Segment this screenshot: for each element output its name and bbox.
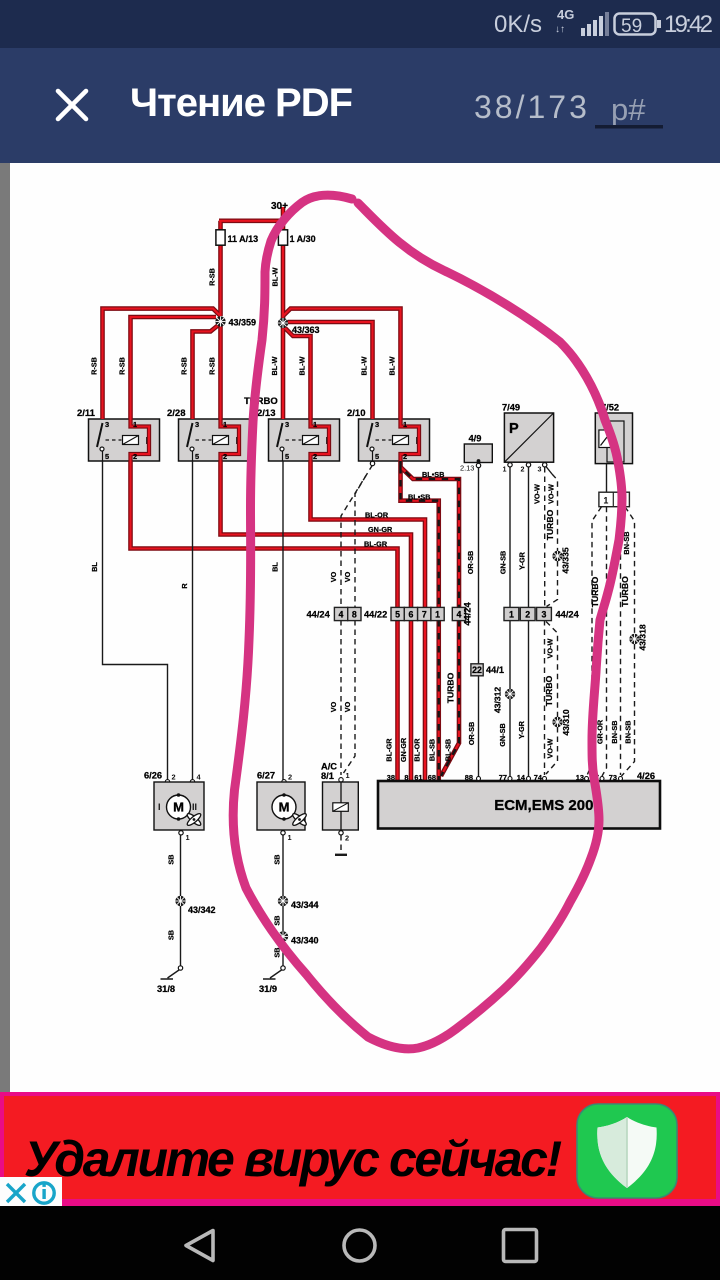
- svg-text:GN-SB: GN-SB: [498, 723, 507, 747]
- svg-text:2: 2: [172, 773, 176, 782]
- svg-text:3: 3: [285, 420, 289, 429]
- svg-text:BL-OR: BL-OR: [365, 511, 389, 520]
- svg-text:31/9: 31/9: [259, 984, 277, 994]
- svg-text:VO-W: VO-W: [533, 484, 542, 504]
- svg-text:VO-W: VO-W: [546, 738, 555, 758]
- svg-text:TURBO: TURBO: [590, 576, 600, 607]
- svg-text:19:42: 19:42: [664, 11, 713, 38]
- svg-text:GN-SB: GN-SB: [499, 551, 508, 575]
- svg-text:3: 3: [375, 420, 379, 429]
- svg-text:VO: VO: [329, 571, 338, 582]
- svg-text:73: 73: [609, 773, 617, 782]
- svg-text:TURBO: TURBO: [620, 576, 630, 607]
- svg-text:43/340: 43/340: [291, 936, 319, 946]
- svg-text:BL-GR: BL-GR: [364, 540, 388, 549]
- svg-text:30+: 30+: [271, 201, 288, 212]
- svg-text:22: 22: [472, 665, 482, 675]
- svg-text:TURBO: TURBO: [446, 672, 456, 703]
- svg-text:VO: VO: [343, 701, 352, 712]
- svg-text:A/C: A/C: [321, 762, 337, 772]
- svg-text:2/28: 2/28: [167, 408, 186, 419]
- svg-text:BL-W: BL-W: [271, 267, 280, 286]
- svg-text:SB: SB: [273, 854, 282, 864]
- svg-text:1: 1: [435, 610, 440, 620]
- svg-text:SB: SB: [167, 854, 176, 864]
- svg-text:SB: SB: [273, 915, 282, 925]
- svg-text:1: 1: [133, 420, 137, 429]
- svg-text:GN-GR: GN-GR: [368, 525, 393, 534]
- svg-text:74: 74: [534, 773, 543, 782]
- svg-text:Y-GR: Y-GR: [517, 720, 526, 739]
- svg-text:Y-GR: Y-GR: [518, 551, 527, 570]
- svg-text:TURBO: TURBO: [244, 396, 278, 407]
- svg-text:1: 1: [313, 420, 317, 429]
- svg-text:8/1: 8/1: [321, 771, 334, 781]
- svg-text:38: 38: [387, 773, 395, 782]
- svg-text:61: 61: [414, 773, 422, 782]
- svg-text:1: 1: [288, 833, 292, 842]
- svg-text:VO: VO: [329, 701, 338, 712]
- svg-text:BL-OR: BL-OR: [413, 738, 422, 762]
- svg-text:R-SB: R-SB: [90, 357, 99, 375]
- svg-text:4: 4: [339, 610, 344, 620]
- svg-text:2/10: 2/10: [347, 408, 366, 419]
- svg-text:43/312: 43/312: [493, 687, 503, 714]
- svg-text:2: 2: [345, 834, 349, 843]
- svg-text:3: 3: [538, 465, 542, 474]
- svg-text:44/24: 44/24: [307, 610, 331, 620]
- svg-text:VO-W: VO-W: [546, 638, 555, 658]
- svg-text:TURBO: TURBO: [544, 675, 554, 706]
- svg-text:BN-SB: BN-SB: [624, 720, 633, 743]
- svg-text:R-SB: R-SB: [180, 357, 189, 375]
- svg-text:P: P: [509, 421, 519, 437]
- svg-text:44/22: 44/22: [364, 610, 387, 620]
- svg-text:11 A/13: 11 A/13: [228, 234, 259, 244]
- svg-text:5: 5: [375, 452, 379, 461]
- svg-text:43/359: 43/359: [229, 318, 257, 328]
- svg-text:8: 8: [352, 610, 357, 620]
- svg-text:BL-W: BL-W: [298, 356, 307, 375]
- svg-text:p#: p#: [611, 92, 646, 127]
- svg-text:Чтение PDF: Чтение PDF: [130, 81, 352, 125]
- svg-text:44/24: 44/24: [556, 610, 580, 620]
- svg-text:BL-W: BL-W: [270, 356, 279, 375]
- svg-text:3: 3: [105, 420, 109, 429]
- svg-text:44/1: 44/1: [486, 665, 504, 675]
- svg-text:1: 1: [603, 496, 608, 506]
- svg-text:R: R: [180, 583, 189, 589]
- svg-text:↓↑: ↓↑: [555, 24, 565, 35]
- svg-text:SB: SB: [167, 930, 176, 940]
- svg-text:4G: 4G: [557, 7, 574, 22]
- svg-text:44/24: 44/24: [463, 602, 473, 626]
- svg-text:BL-W: BL-W: [360, 356, 369, 375]
- svg-text:1: 1: [186, 833, 190, 842]
- svg-text:2: 2: [521, 465, 525, 474]
- svg-text:5: 5: [195, 452, 199, 461]
- svg-text:88: 88: [465, 773, 473, 782]
- svg-text:38/173: 38/173: [474, 89, 590, 125]
- svg-text:2.13: 2.13: [460, 464, 474, 473]
- svg-text:BL•SB: BL•SB: [422, 470, 444, 479]
- svg-text:14: 14: [517, 773, 526, 782]
- svg-text:2: 2: [223, 452, 227, 461]
- svg-text:43/318: 43/318: [638, 624, 648, 651]
- svg-text:43/344: 43/344: [291, 900, 319, 910]
- svg-text:3: 3: [542, 610, 547, 620]
- svg-text:4: 4: [457, 610, 462, 620]
- svg-text:VO-W: VO-W: [547, 484, 556, 504]
- svg-text:BL•SB: BL•SB: [408, 493, 430, 502]
- svg-text:1: 1: [223, 420, 227, 429]
- svg-text:6: 6: [409, 610, 414, 620]
- svg-text:43/342: 43/342: [188, 905, 216, 915]
- svg-text:I: I: [158, 802, 161, 812]
- svg-text:5: 5: [285, 452, 289, 461]
- svg-text:7: 7: [422, 610, 427, 620]
- svg-text:R-SB: R-SB: [208, 357, 217, 375]
- svg-text:2/11: 2/11: [77, 408, 96, 419]
- svg-text:0K/s: 0K/s: [494, 11, 542, 38]
- svg-text:GN-GR: GN-GR: [399, 737, 408, 762]
- svg-text:59: 59: [621, 16, 642, 37]
- svg-text:BL-SB: BL-SB: [444, 739, 453, 761]
- svg-text:4: 4: [197, 773, 202, 782]
- svg-text:43/310: 43/310: [561, 709, 571, 736]
- svg-text:43/335: 43/335: [561, 547, 571, 574]
- svg-text:43/363: 43/363: [292, 325, 320, 335]
- svg-text:77: 77: [499, 773, 507, 782]
- svg-text:68: 68: [428, 773, 436, 782]
- svg-text:4/9: 4/9: [469, 434, 482, 444]
- svg-text:TURBO: TURBO: [545, 509, 555, 540]
- svg-text:1: 1: [509, 610, 514, 620]
- svg-text:BL-SB: BL-SB: [428, 739, 437, 761]
- svg-text:1: 1: [503, 465, 507, 474]
- svg-text:2: 2: [288, 773, 292, 782]
- svg-text:4/26: 4/26: [637, 771, 655, 781]
- svg-text:5: 5: [105, 452, 109, 461]
- svg-text:BN-SB: BN-SB: [610, 720, 619, 743]
- svg-text:3: 3: [195, 420, 199, 429]
- svg-text:6/26: 6/26: [144, 771, 162, 781]
- svg-text:13: 13: [576, 773, 584, 782]
- svg-text:II: II: [192, 802, 197, 812]
- svg-text:1: 1: [346, 771, 350, 780]
- svg-text:R-SB: R-SB: [118, 357, 127, 375]
- svg-text:8: 8: [404, 773, 408, 782]
- svg-text:2: 2: [525, 610, 530, 620]
- svg-text:ECM,EMS 2000: ECM,EMS 2000: [494, 797, 602, 814]
- svg-text:2: 2: [313, 452, 317, 461]
- svg-text:7/49: 7/49: [502, 403, 520, 413]
- svg-text:BL: BL: [271, 562, 280, 572]
- svg-text:BL-GR: BL-GR: [385, 738, 394, 762]
- svg-text:1: 1: [403, 420, 407, 429]
- svg-text:OR-SB: OR-SB: [466, 551, 475, 575]
- svg-text:R-SB: R-SB: [208, 268, 217, 286]
- svg-text:6/27: 6/27: [257, 771, 275, 781]
- svg-text:2: 2: [403, 452, 407, 461]
- svg-text:BL-W: BL-W: [388, 356, 397, 375]
- svg-text:1 A/30: 1 A/30: [290, 234, 316, 244]
- svg-text:2/13: 2/13: [257, 408, 276, 419]
- svg-text:2: 2: [133, 452, 137, 461]
- svg-text:BL: BL: [90, 562, 99, 572]
- svg-text:31/8: 31/8: [157, 984, 175, 994]
- svg-text:5: 5: [395, 610, 400, 620]
- svg-text:OR-SB: OR-SB: [467, 722, 476, 746]
- svg-text:VO: VO: [343, 571, 352, 582]
